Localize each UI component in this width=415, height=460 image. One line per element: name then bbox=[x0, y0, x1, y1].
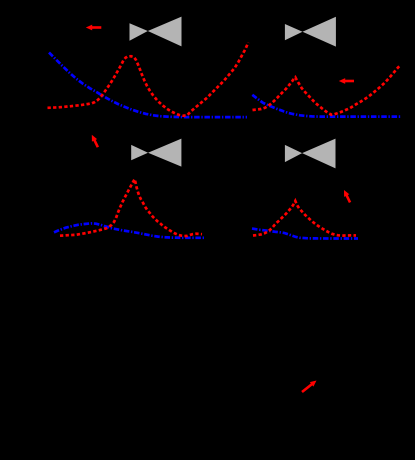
panel 1 bowtie (gray) bbox=[130, 17, 182, 47]
panel 2 (top-right) red curve (dashed) bbox=[253, 65, 401, 115]
panel 3 red arrow (pointing up-left) bbox=[89, 134, 100, 149]
panel 1 (top-left) blue curve (dash-dot) bbox=[49, 53, 247, 118]
panel 4 bowtie (gray) bbox=[285, 139, 336, 169]
panel 1 red arrow (pointing left) bbox=[86, 25, 102, 31]
panel 3 (middle-left) red curve (dashed) bbox=[60, 179, 202, 236]
panel 4 (middle-right) red curve (dashed) bbox=[253, 201, 356, 236]
panel 3 bowtie (gray) bbox=[131, 139, 181, 167]
panel 2 red arrow (pointing left) bbox=[339, 78, 354, 84]
panel 4 red arrow (pointing up-left) bbox=[341, 189, 352, 204]
panel 2 bowtie (gray) bbox=[285, 17, 336, 47]
panel 1 (top-left) red curve (dashed) bbox=[48, 43, 249, 116]
panel 4 (middle-right) blue curve (dash-dot) bbox=[252, 229, 358, 239]
bottom red arrow (pointing up-right) bbox=[300, 378, 318, 394]
panel 2 (top-right) blue curve (dash-dot) bbox=[252, 95, 401, 117]
panel 3 (middle-left) blue curve (dash-dot) bbox=[54, 223, 204, 237]
